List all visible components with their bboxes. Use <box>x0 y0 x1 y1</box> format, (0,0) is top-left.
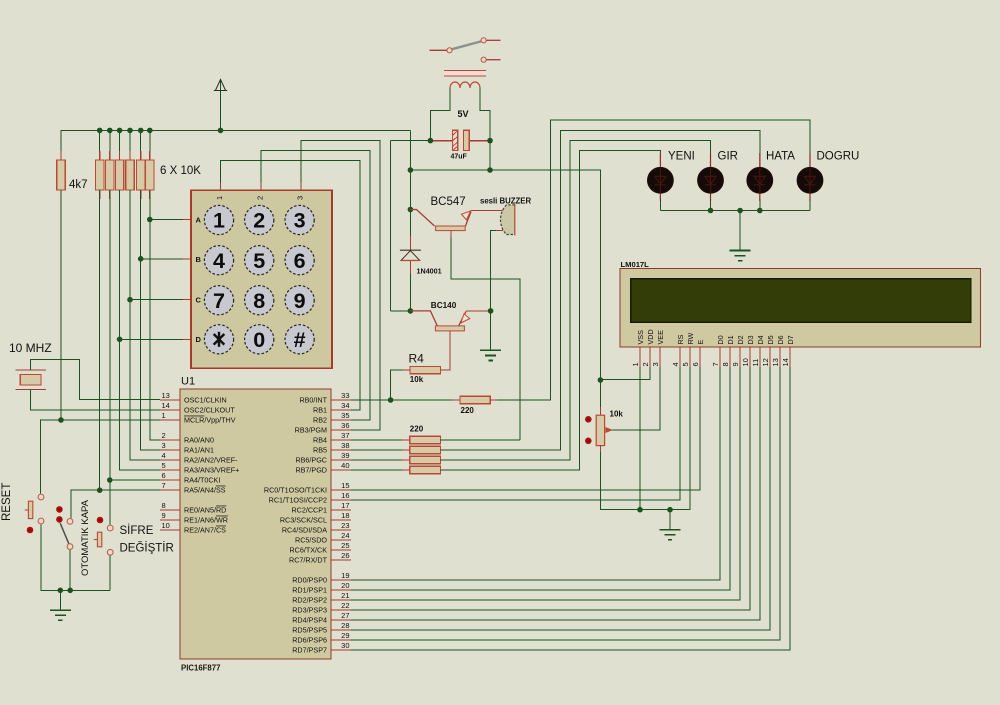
LCD pin 5 RW stub <box>689 347 691 367</box>
svg-text:RD0/PSP0: RD0/PSP0 <box>292 576 327 585</box>
wire BC140 base to R4 <box>440 331 450 370</box>
wire rail to 10K resistor 1 <box>99 130 101 160</box>
wire BC140 collector from relay drive <box>391 310 411 312</box>
LED HATA <box>747 153 773 201</box>
svg-text:RC1/T1OSI/CCP2: RC1/T1OSI/CCP2 <box>269 496 327 505</box>
svg-text:C: C <box>196 296 202 305</box>
pin 39 stub U1 right <box>331 459 351 461</box>
pin 14 stub U1 left <box>160 409 180 411</box>
svg-text:3: 3 <box>295 196 304 200</box>
svg-text:RA1/AN1: RA1/AN1 <box>184 446 214 455</box>
svg-text:RD3/PSP3: RD3/PSP3 <box>292 606 327 615</box>
resistor 10K #2 <box>106 151 114 199</box>
potentiometer RV1 10k <box>596 415 612 445</box>
svg-text:3: 3 <box>294 209 306 233</box>
junction LED ground tap <box>737 208 743 214</box>
svg-text:2: 2 <box>641 362 650 366</box>
wire keypad row A <box>150 219 191 221</box>
svg-text:8: 8 <box>721 362 730 366</box>
keypad 3x4 <box>191 190 332 368</box>
wire keypad col2 to pin RB2 <box>261 151 370 420</box>
svg-text:4k7: 4k7 <box>69 179 88 191</box>
wire 10K#6 column to row A and pin RA0 <box>150 190 160 440</box>
wire rail to 10K resistor 4 <box>129 130 131 160</box>
wire keypad col1 to pin RB1 <box>221 160 361 410</box>
svg-text:1N4001: 1N4001 <box>417 267 442 276</box>
wire 4k7 to MCLR <box>60 190 62 420</box>
wire 10K#2 column to pin RA4 and SIFRE button <box>109 190 111 524</box>
svg-text:10k: 10k <box>410 375 424 384</box>
svg-text:11: 11 <box>751 359 760 367</box>
wire RB5 to HATA LED <box>441 130 760 450</box>
svg-text:10 MHZ: 10 MHZ <box>9 341 52 355</box>
LCD pin 4 RS stub <box>679 347 681 367</box>
wire ground line stem <box>669 510 671 530</box>
wire junction to resistor 220 <box>391 399 452 401</box>
pin 20 stub U1 right <box>331 589 351 591</box>
svg-text:29: 29 <box>341 631 349 640</box>
svg-text:2: 2 <box>162 431 166 440</box>
svg-text:RD6/PSP6: RD6/PSP6 <box>292 636 327 645</box>
svg-text:16: 16 <box>341 491 349 500</box>
svg-text:RB4: RB4 <box>313 436 327 445</box>
svg-text:4: 4 <box>671 362 680 366</box>
LCD pin 1 VSS stub <box>639 347 641 367</box>
svg-text:38: 38 <box>341 441 349 450</box>
junction VDD / 5V / pot <box>598 377 604 383</box>
wire cap line to relay drive vertical <box>391 140 431 142</box>
wire LED HATA cathode down <box>759 199 761 211</box>
pin 30 stub U1 right <box>331 649 351 651</box>
svg-text:E: E <box>696 340 705 345</box>
wire relay drive to BC140 collector <box>390 141 392 311</box>
wire buzzer bottom to ground net <box>491 231 503 311</box>
svg-text:1: 1 <box>162 411 166 420</box>
wire 10K#4 column to row C and pin RA2 <box>130 190 160 460</box>
junction diode / BC140 collector <box>408 308 414 314</box>
wire rail to 10K resistor 3 <box>119 130 121 160</box>
resistor R5 220 (DOGRU) <box>460 396 490 403</box>
wire LCD RS to pin RC1 <box>351 367 680 500</box>
wire rail to R-4k7 <box>60 130 62 160</box>
ground under pot <box>660 530 681 540</box>
junction row D / pullup <box>117 337 123 343</box>
ground under BC140 <box>480 350 501 360</box>
svg-text:RC7/RX/DT: RC7/RX/DT <box>289 556 328 565</box>
wire MCLR net: pin1 to 4k7 and RESET button <box>41 420 161 493</box>
wire relay coil left leg <box>430 88 450 141</box>
LCD pin 7 D0 stub <box>719 347 721 367</box>
resistor 10K #4 <box>126 151 134 199</box>
svg-text:D0: D0 <box>716 335 725 344</box>
keypad button 1 <box>204 205 233 234</box>
svg-text:D2: D2 <box>736 335 745 344</box>
pin 36 stub U1 right <box>331 429 351 431</box>
wire LCD D6 to pin RD6 <box>351 367 780 640</box>
svg-text:#: # <box>294 328 306 352</box>
svg-text:47uF: 47uF <box>451 154 468 161</box>
svg-text:RC5/SDO: RC5/SDO <box>295 536 327 545</box>
svg-text:40: 40 <box>341 461 349 470</box>
resistor 220 bank #4 (RB7 to YENI LED) <box>410 466 441 473</box>
push button SIFRE DEGISTIR <box>94 525 113 555</box>
svg-text:D4: D4 <box>756 335 765 344</box>
svg-text:220: 220 <box>461 406 475 415</box>
svg-text:35: 35 <box>341 411 349 420</box>
wire RESET bottom to ground rail <box>41 524 110 590</box>
pin 3 stub U1 left <box>160 449 180 451</box>
wire pin RB0 to junction <box>351 399 391 401</box>
svg-text:DEĞİŞTİR: DEĞİŞTİR <box>120 542 174 555</box>
pin 4 stub U1 left <box>160 459 180 461</box>
svg-text:RC2/CCP1: RC2/CCP1 <box>291 506 327 515</box>
LCD pin 8 D1 stub <box>729 347 731 367</box>
svg-text:10: 10 <box>162 521 170 530</box>
svg-text:5: 5 <box>253 249 265 273</box>
svg-text:14: 14 <box>781 358 790 366</box>
svg-text:LM017L: LM017L <box>621 260 650 269</box>
svg-text:RB1: RB1 <box>313 406 327 415</box>
svg-text:6: 6 <box>294 249 306 273</box>
svg-text:24: 24 <box>341 531 349 540</box>
wire SIFRE bottom to ground rail <box>109 556 111 591</box>
wire resistor 220 to DOGRU LED <box>490 399 498 401</box>
pin 38 stub U1 right <box>331 449 351 451</box>
svg-text:RC3/SCK/SCL: RC3/SCK/SCL <box>280 516 327 525</box>
pin 29 stub U1 right <box>331 639 351 641</box>
pin 10 stub U1 left <box>160 529 180 531</box>
wire 10K#5 column to row B and pin RA1 <box>141 190 160 450</box>
junction OTOMATIK bottom <box>67 588 73 594</box>
svg-text:HATA: HATA <box>766 151 795 163</box>
LCD pin 13 D6 stub <box>779 347 781 367</box>
wire LCD VEE to pot wiper <box>608 367 660 430</box>
pin 6 stub U1 left <box>160 479 180 481</box>
svg-text:R4: R4 <box>409 352 425 366</box>
wire LCD VDD to 5V <box>600 367 650 380</box>
ground bottom-left <box>50 610 71 620</box>
LCD pin 12 D5 stub <box>769 347 771 367</box>
LCD pin 10 D3 stub <box>749 347 751 367</box>
wire ground stem bottom-left <box>59 590 61 610</box>
junction power arrow / rail <box>218 128 224 134</box>
wire 5V line to LCD supply <box>410 170 600 380</box>
resistor 10K #5 <box>137 151 145 199</box>
pin 21 stub U1 right <box>331 599 351 601</box>
power symbol VCC arrow <box>214 79 227 130</box>
svg-text:7: 7 <box>213 289 225 313</box>
svg-text:RD1/PSP1: RD1/PSP1 <box>292 586 327 595</box>
svg-text:39: 39 <box>341 451 349 460</box>
svg-text:RESET: RESET <box>1 483 13 521</box>
svg-text:D6: D6 <box>776 335 785 344</box>
wire 10K#3 column to row D and pin RA3 <box>120 190 160 470</box>
pin 16 stub U1 right <box>331 499 351 501</box>
svg-text:RC4/SDI/SDA: RC4/SDI/SDA <box>282 526 327 535</box>
svg-text:RB0/INT: RB0/INT <box>299 396 327 405</box>
wire pin RA4 stub to column <box>110 479 160 481</box>
wire OTOMATIK bottom to ground rail <box>69 550 71 590</box>
svg-text:VDD: VDD <box>646 329 655 344</box>
svg-text:VSS: VSS <box>636 330 645 345</box>
wire bank resistor 1 to BC547 base corner <box>441 439 521 441</box>
pin 27 stub U1 right <box>331 619 351 621</box>
junction ground tap <box>58 588 64 594</box>
svg-text:9: 9 <box>294 289 306 313</box>
resistor 10K #6 <box>146 151 154 199</box>
junction row A / pullup <box>147 217 153 223</box>
wire keypad row D <box>120 338 191 340</box>
keypad button 2 <box>245 205 274 234</box>
pin 17 stub U1 right <box>331 509 351 511</box>
ground under LEDs <box>730 251 751 261</box>
svg-text:RB5: RB5 <box>313 446 327 455</box>
svg-text:B: B <box>196 255 202 264</box>
svg-text:RD7/PSP7: RD7/PSP7 <box>292 646 327 655</box>
junction RB0 / R4 / resistor 220 <box>388 397 394 403</box>
wire pin RA5 to OTOMATIK button <box>71 490 160 518</box>
svg-text:10k: 10k <box>610 410 624 419</box>
wire cap right to 5V line <box>489 141 491 170</box>
junction diode line / BC547 collector <box>408 207 414 213</box>
pin 18 stub U1 right <box>331 519 351 521</box>
svg-text:13: 13 <box>771 358 780 366</box>
wire LCD E to pin RC0 <box>351 367 700 490</box>
keypad button 4 <box>204 246 233 275</box>
svg-text:17: 17 <box>341 501 349 510</box>
wire crystal bottom to OSC2 pin14 <box>31 389 160 410</box>
marker pot down <box>585 438 592 445</box>
wire diode cathode to BC140 collector <box>409 261 411 275</box>
junction rail x=149.8 <box>147 128 153 134</box>
svg-text:RA4/T0CKI: RA4/T0CKI <box>184 476 220 485</box>
wire pin to bank resistor 1 <box>351 439 410 441</box>
LCD pin 9 D2 stub <box>739 347 741 367</box>
pin 35 stub U1 right <box>331 419 351 421</box>
LCD pin 14 D7 stub <box>789 347 791 367</box>
svg-text:SİFRE: SİFRE <box>120 524 154 537</box>
junction 4k7 / MCLR <box>58 417 64 423</box>
svg-text:5: 5 <box>681 362 690 366</box>
wire LCD D3 to pin RD3 <box>351 367 750 610</box>
svg-text:RD4/PSP4: RD4/PSP4 <box>292 616 327 625</box>
keypad button # <box>285 325 314 354</box>
wire keypad row B <box>141 258 191 260</box>
svg-text:RE1/AN6/WR: RE1/AN6/WR <box>184 516 228 525</box>
transistor Q2 BC140 <box>410 311 469 331</box>
wire LCD D1 to pin RD1 <box>351 367 730 590</box>
svg-text:6: 6 <box>691 362 700 366</box>
svg-text:RA2/AN2/VREF-: RA2/AN2/VREF- <box>184 456 238 465</box>
resistor 4k7 (MCLR pullup) <box>57 151 65 199</box>
svg-text:20: 20 <box>341 581 349 590</box>
capacitor C1 47uF <box>430 130 490 150</box>
wire LCD D0 to pin RD0 <box>351 367 720 580</box>
svg-text:D1: D1 <box>726 335 735 344</box>
wire 10K#1 column to pin RA5 <box>99 190 101 490</box>
svg-text:RB2: RB2 <box>313 416 327 425</box>
resistor 220 bank #1 (RB4 to BC547 base) <box>410 436 441 443</box>
svg-text:3: 3 <box>651 362 660 366</box>
svg-text:1: 1 <box>215 196 224 200</box>
wire LCD D7 to pin RD7 <box>351 367 790 650</box>
crystal X1 10MHZ <box>15 370 46 389</box>
svg-text:26: 26 <box>341 551 349 560</box>
svg-text:9: 9 <box>731 362 740 366</box>
marker OTOMATIK up <box>56 506 63 513</box>
svg-text:13: 13 <box>162 391 170 400</box>
svg-text:12: 12 <box>761 358 770 366</box>
junction VSS / ground line <box>637 507 643 513</box>
wire BC547 base to RB4 resistor <box>450 231 452 238</box>
wire RB7 to YENI LED <box>441 151 661 470</box>
wire pin to bank resistor 4 <box>351 469 410 471</box>
svg-text:15: 15 <box>341 481 349 490</box>
svg-text:1: 1 <box>631 362 640 366</box>
svg-text:RC6/TX/CK: RC6/TX/CK <box>289 546 327 555</box>
svg-text:U1: U1 <box>181 376 195 388</box>
svg-text:5V: 5V <box>458 109 469 119</box>
junction RA4 / SIFRE <box>107 477 113 483</box>
svg-text:4: 4 <box>213 249 225 273</box>
svg-text:8: 8 <box>162 501 166 510</box>
junction RA5 / OTOMATIK <box>97 487 103 493</box>
junction rail x=119.6 <box>117 128 123 134</box>
wire rail to 10K resistor 5 <box>140 130 142 160</box>
svg-text:YENI: YENI <box>668 151 695 163</box>
junction row C / pullup <box>127 297 133 303</box>
svg-text:28: 28 <box>341 621 349 630</box>
junction HATA cathode <box>757 208 763 214</box>
svg-text:RC0/T1OSO/T1CKI: RC0/T1OSO/T1CKI <box>264 486 327 495</box>
svg-text:MCLR/Vpp/THV: MCLR/Vpp/THV <box>184 416 236 425</box>
keypad button 9 <box>285 286 314 315</box>
resistor R4 10k <box>410 366 440 373</box>
wire relay coil right leg <box>480 88 490 141</box>
wire LCD D5 to pin RD5 <box>351 367 770 630</box>
svg-text:RW: RW <box>686 332 695 344</box>
wire ground stem under BC140 <box>490 311 492 350</box>
wire keypad col3 to pin RB3 <box>301 141 380 430</box>
LCD screen <box>631 279 971 323</box>
buzzer BZ1 <box>500 204 514 236</box>
LCD LM017L body <box>620 269 981 348</box>
wire diode anode <box>409 170 411 250</box>
svg-text:5: 5 <box>162 461 166 470</box>
svg-text:PIC16F877: PIC16F877 <box>181 664 220 673</box>
keypad button 7 <box>204 286 233 315</box>
svg-text:RD2/PSP2: RD2/PSP2 <box>292 596 327 605</box>
svg-text:6: 6 <box>162 471 166 480</box>
svg-text:30: 30 <box>341 641 349 650</box>
keypad button 0 <box>245 325 274 354</box>
pin 23 stub U1 right <box>331 529 351 531</box>
wire crystal top to OSC1 pin13 <box>31 360 160 400</box>
svg-text:220: 220 <box>410 425 424 434</box>
junction rail x=130 <box>127 128 133 134</box>
pin 19 stub U1 right <box>331 579 351 581</box>
wire pin to bank resistor 3 <box>351 459 410 461</box>
pin 34 stub U1 right <box>331 409 351 411</box>
wire LED YENI cathode down <box>659 199 661 211</box>
junction rail x=140.7 <box>138 128 144 134</box>
svg-text:OSC1/CLKIN: OSC1/CLKIN <box>184 396 227 405</box>
transistor Q1 BC547 <box>410 210 471 231</box>
switch relay contact RL1 <box>430 38 501 63</box>
switch OTOMATIK KAPA <box>60 519 73 550</box>
svg-text:25: 25 <box>341 541 349 550</box>
resistor 10K #3 <box>115 151 123 199</box>
svg-text:BC547: BC547 <box>431 196 466 208</box>
keypad button * <box>204 325 233 354</box>
svg-text:23: 23 <box>341 521 349 530</box>
pin 13 stub U1 left <box>160 399 180 401</box>
svg-text:OSC2/CLKOUT: OSC2/CLKOUT <box>184 406 235 415</box>
pin 9 stub U1 left <box>160 519 180 521</box>
svg-text:D3: D3 <box>746 335 755 344</box>
wire VCC rail down to 5V node <box>409 130 411 170</box>
pin 7 stub U1 left <box>160 489 180 491</box>
resistor 10K #1 <box>96 151 104 199</box>
keypad button 6 <box>285 246 314 275</box>
LCD pin 6 E stub <box>699 347 701 367</box>
resistor 220 bank #3 (RB6 to GIR LED) <box>410 456 441 463</box>
svg-text:27: 27 <box>341 611 349 620</box>
svg-text:3: 3 <box>162 441 166 450</box>
pin 5 stub U1 left <box>160 469 180 471</box>
pin 15 stub U1 right <box>331 489 351 491</box>
svg-text:RA3/AN3/VREF+: RA3/AN3/VREF+ <box>184 466 239 475</box>
pin 22 stub U1 right <box>331 609 351 611</box>
LED GIR <box>698 153 724 201</box>
junction ground line tap <box>667 507 673 513</box>
resistor 220 bank #2 (RB5 to HATA LED) <box>410 446 441 453</box>
svg-text:6 X 10K: 6 X 10K <box>160 165 201 177</box>
marker OTOMATIK down <box>56 516 63 523</box>
wire LCD D4 to pin RD4 <box>351 367 760 620</box>
junction BC140 emitter / buzzer / ground <box>488 308 494 314</box>
op-amp U1 PIC16F877 body <box>180 389 331 659</box>
wire LED rail ground stem <box>739 211 741 251</box>
pin 2 stub U1 left <box>160 439 180 441</box>
svg-text:RB7/PGD: RB7/PGD <box>295 466 327 475</box>
pin 1 stub U1 left <box>160 419 180 421</box>
junction 5V node <box>408 167 414 173</box>
svg-text:A: A <box>196 216 202 225</box>
junction 5V / cap branch <box>487 167 493 173</box>
svg-text:D: D <box>196 335 202 344</box>
wire 5V to pot top <box>599 380 601 415</box>
svg-text:37: 37 <box>341 431 349 440</box>
wire BC140 emitter to ground <box>466 310 491 312</box>
wire rail to 10K resistor 2 <box>109 130 111 160</box>
marker RESET actuator <box>27 527 34 534</box>
junction relay left / cap <box>428 138 434 144</box>
svg-text:4: 4 <box>162 451 166 460</box>
svg-text:RD5/PSP5: RD5/PSP5 <box>292 626 327 635</box>
wire R4 left to RB0 node <box>402 369 410 371</box>
svg-text:0: 0 <box>253 328 265 352</box>
svg-text:18: 18 <box>341 511 349 520</box>
svg-text:D5: D5 <box>766 335 775 344</box>
relay core RL1 <box>444 70 486 75</box>
marker pot up <box>585 416 592 423</box>
wire pot bottom to ground line <box>599 446 601 453</box>
svg-text:22: 22 <box>341 601 349 610</box>
LED YENI <box>648 153 674 201</box>
LED DOGRU <box>797 153 823 201</box>
wire LCD D2 to pin RD2 <box>351 367 740 600</box>
